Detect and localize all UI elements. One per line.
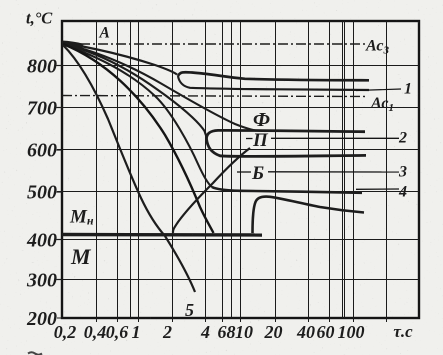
- pointer line B to label 3: [268, 171, 399, 173]
- transformation line 1 lower branch: [178, 76, 369, 90]
- pointer line P to label 2: [271, 137, 399, 139]
- Ac1 dash-dot line: [62, 96, 368, 97]
- transformation line 2 (pearlite start, hairpin nose, ends at label 2): [207, 130, 366, 139]
- transformation line 4 (bainite, ends at label 4): [212, 187, 362, 193]
- cooling curve 1 (slowest): [63, 43, 177, 75]
- pointer dash left of P label: [246, 138, 253, 140]
- cooling curve 3: [63, 44, 207, 137]
- cooling curve 4b: [63, 44, 214, 233]
- cooling curve 2: [63, 44, 256, 131]
- pointer line to 4: [356, 188, 399, 190]
- transformation line 1 upper branch (ends at label 1): [178, 72, 369, 80]
- vertical grid lines (log time): [97, 21, 387, 322]
- cooling curve 5 (quench, no transformation): [63, 45, 195, 292]
- scan artifact bottom-left: [28, 352, 42, 355]
- cooling curve 4: [63, 44, 212, 187]
- horizontal grid lines (temperature): [57, 66, 419, 319]
- y axis ticks: [57, 66, 63, 280]
- x labels: [54, 322, 413, 342]
- pointer dash to 1: [356, 89, 401, 91]
- transformation line 3 (hairpin lower branch, ends at label 3): [207, 139, 367, 157]
- Mn martensite start thick line: [62, 233, 262, 237]
- bainite fin curve: [253, 197, 365, 233]
- fan origin blob: [62, 43, 83, 46]
- bainite C-curve left branch: [173, 148, 250, 233]
- Ac3 dash-dot line: [62, 43, 368, 45]
- plot frame: [62, 21, 419, 318]
- y labels: [26, 56, 57, 331]
- pointer dash left of B label: [237, 171, 251, 173]
